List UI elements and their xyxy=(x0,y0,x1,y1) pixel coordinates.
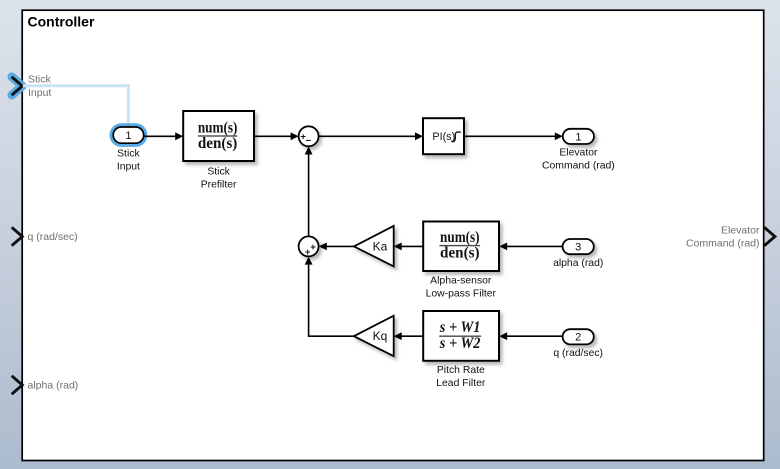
svg-text:num(s): num(s) xyxy=(198,119,238,136)
svg-text:alpha (rad): alpha (rad) xyxy=(28,380,79,392)
wire: Inport 3 to Alpha filter xyxy=(499,243,562,251)
wire: Stick Input marker to Inport 1 (highlighted selection) xyxy=(23,86,129,124)
svg-text:1: 1 xyxy=(575,131,581,143)
wire: Inport 2 to Pitch filter xyxy=(499,332,562,340)
svg-text:s + W1: s + W1 xyxy=(439,319,481,336)
svg-text:Lead Filter: Lead Filter xyxy=(436,378,486,389)
wire: Ka to Sum2 xyxy=(319,243,354,251)
svg-text:Command (rad): Command (rad) xyxy=(686,238,760,250)
svg-text:q (rad/sec): q (rad/sec) xyxy=(28,231,78,243)
gain Ka xyxy=(354,226,394,267)
wire: Kq to Sum2 bottom input (L-shaped) xyxy=(305,257,354,337)
inport marker q (rad/sec) xyxy=(12,227,78,245)
outport marker Elevator Command (rad) xyxy=(686,225,775,250)
controller block PI(s) xyxy=(423,118,464,154)
svg-text:Pitch Rate: Pitch Rate xyxy=(437,365,485,376)
transfer function block Stick Prefilter xyxy=(183,111,254,191)
sum junction Sum2 (+ right, + bottom) xyxy=(299,236,319,258)
wire: Sum2 output up to Sum1 bottom input xyxy=(305,147,313,237)
svg-text:Stick: Stick xyxy=(117,149,140,160)
svg-text:Input: Input xyxy=(28,87,51,99)
svg-text:Input: Input xyxy=(117,162,140,173)
inport 2 q (rad/sec) xyxy=(553,329,603,359)
svg-text:Kq: Kq xyxy=(373,329,388,343)
svg-text:den(s): den(s) xyxy=(198,135,238,152)
transfer function block Alpha-sensor Low-pass Filter xyxy=(423,222,499,300)
inport 1 Stick Input xyxy=(113,127,144,173)
svg-text:Ka: Ka xyxy=(373,239,388,253)
outport 1 Elevator Command (rad) xyxy=(542,129,615,172)
svg-text:q (rad/sec): q (rad/sec) xyxy=(553,348,603,359)
svg-text:−: − xyxy=(306,135,312,146)
svg-text:s + W2: s + W2 xyxy=(439,335,481,352)
wire: Sum1 to PI controller xyxy=(319,132,423,140)
svg-text:Alpha-sensor: Alpha-sensor xyxy=(430,276,492,287)
wire: Inport 1 to Stick Prefilter xyxy=(144,132,183,140)
svg-text:2: 2 xyxy=(575,332,581,344)
svg-text:Elevator: Elevator xyxy=(721,225,760,237)
svg-text:Elevator: Elevator xyxy=(559,148,598,159)
inport marker Stick Input (highlighted) xyxy=(12,74,52,99)
inport 3 alpha (rad) xyxy=(553,239,603,269)
svg-text:3: 3 xyxy=(575,242,581,254)
svg-text:Stick: Stick xyxy=(207,167,230,178)
gain Kq xyxy=(354,316,394,357)
svg-text:Low-pass Filter: Low-pass Filter xyxy=(426,289,497,300)
svg-text:Stick: Stick xyxy=(28,74,52,86)
svg-text:1: 1 xyxy=(125,130,131,142)
transfer function block Pitch Rate Lead Filter xyxy=(423,311,499,389)
svg-text:den(s): den(s) xyxy=(440,245,480,262)
svg-text:Controller: Controller xyxy=(28,13,95,29)
svg-text:Prefilter: Prefilter xyxy=(201,180,237,191)
wire: Pitch filter to Kq xyxy=(394,332,424,340)
svg-text:+: + xyxy=(310,242,316,253)
sum junction Sum1 (+ left, - bottom) xyxy=(299,126,319,146)
svg-text:Command (rad): Command (rad) xyxy=(542,161,615,172)
svg-text:num(s): num(s) xyxy=(440,229,480,246)
svg-text:alpha (rad): alpha (rad) xyxy=(553,258,603,269)
wire: Stick Prefilter to Sum1 xyxy=(254,132,299,140)
inport marker alpha (rad) xyxy=(12,376,79,394)
wire: PI to Outport 1 xyxy=(464,132,563,140)
wire: Alpha filter to Ka xyxy=(394,243,424,251)
svg-text:+: + xyxy=(305,247,311,258)
